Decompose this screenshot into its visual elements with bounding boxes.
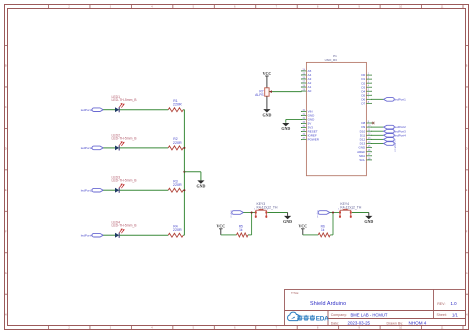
svg-text:ledPort2: ledPort2 (81, 146, 93, 150)
svg-text:1/1: 1/1 (452, 312, 458, 317)
svg-text:220R: 220R (173, 141, 182, 145)
svg-text:GND: GND (262, 112, 271, 117)
svg-text:K4-12x12_TH: K4-12x12_TH (340, 205, 361, 209)
svg-text:ledPort3: ledPort3 (81, 188, 93, 192)
svg-text:220R: 220R (173, 103, 182, 107)
svg-text:ledPort4: ledPort4 (81, 233, 93, 237)
svg-text:VCC: VCC (298, 224, 307, 229)
svg-text:H: H (466, 313, 468, 316)
svg-text:keyPort: keyPort (230, 211, 233, 218)
svg-text:G: G (5, 272, 7, 275)
svg-text:D: D (466, 148, 468, 151)
svg-text:LED-TH-5mm_B: LED-TH-5mm_B (112, 224, 138, 228)
svg-text:C: C (466, 106, 468, 109)
svg-text:LED-TH-5mm_B: LED-TH-5mm_B (112, 179, 138, 183)
svg-text:H: H (5, 313, 7, 316)
svg-text:UNO_R3: UNO_R3 (325, 58, 338, 62)
svg-text:GND: GND (283, 219, 292, 224)
svg-text:LED-TH-5mm_B: LED-TH-5mm_B (112, 98, 138, 102)
svg-text:A0: A0 (308, 89, 312, 93)
svg-text:TITLE:: TITLE: (291, 291, 299, 295)
svg-text:POWER: POWER (308, 138, 320, 142)
svg-text:D7: D7 (361, 101, 365, 105)
svg-text:keyPort2: keyPort2 (394, 144, 397, 153)
svg-text:GND: GND (196, 184, 205, 189)
svg-text:Shield Arduino: Shield Arduino (310, 301, 346, 307)
svg-text:K4-12x12_TH: K4-12x12_TH (257, 205, 278, 209)
svg-text:1.0: 1.0 (451, 301, 458, 306)
svg-text:GND: GND (364, 219, 373, 224)
svg-text:ledPort1: ledPort1 (81, 108, 93, 112)
svg-text:keyPort: keyPort (316, 211, 319, 218)
svg-text:ledPort1: ledPort1 (395, 97, 407, 101)
svg-text:Date:: Date: (331, 321, 340, 325)
svg-text:VCC: VCC (216, 224, 225, 229)
svg-text:C: C (5, 106, 7, 109)
svg-text:GND: GND (281, 126, 290, 131)
svg-text:Drawn By:: Drawn By: (387, 321, 404, 325)
svg-text:EDA: EDA (316, 315, 329, 322)
svg-text:VCC: VCC (263, 71, 272, 76)
svg-text:REV:: REV: (437, 302, 445, 306)
svg-text:Sheet:: Sheet: (437, 313, 447, 317)
svg-text:220R: 220R (173, 183, 182, 187)
svg-text:220R: 220R (173, 228, 182, 232)
svg-text:ALPS: ALPS (255, 93, 264, 97)
svg-text:NHOM 4: NHOM 4 (409, 320, 427, 325)
svg-text:D: D (5, 148, 7, 151)
svg-text:LED-TH-5mm_B: LED-TH-5mm_B (112, 136, 138, 140)
svg-text:BME LAB - HCMUT: BME LAB - HCMUT (351, 312, 388, 317)
svg-text:1k: 1k (321, 228, 325, 232)
svg-text:G: G (466, 272, 468, 275)
svg-text:ledPort4: ledPort4 (395, 133, 407, 137)
svg-text:1k: 1k (239, 228, 243, 232)
svg-text:2023-03-25: 2023-03-25 (348, 321, 371, 326)
svg-text:SCL: SCL (359, 158, 365, 162)
svg-text:Company:: Company: (331, 313, 347, 317)
